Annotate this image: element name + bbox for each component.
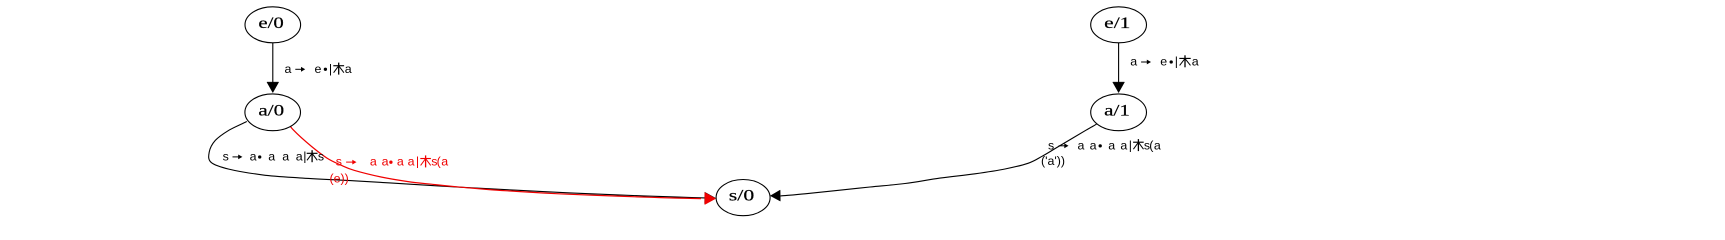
- svg-text:s/0: s/0: [729, 187, 755, 204]
- svg-text:a: a: [408, 155, 415, 169]
- svg-text:('a')): ('a')): [1041, 154, 1065, 168]
- edge e/1 to a/1: [1113, 43, 1125, 93]
- svg-text:a: a: [1090, 138, 1097, 152]
- edge a/0 to s/0 red: [287, 121, 716, 205]
- edge a/0 to s/0 black loop: [209, 122, 716, 204]
- node a/0: [245, 94, 301, 131]
- svg-text:a: a: [268, 150, 275, 164]
- svg-text:a/1: a/1: [1104, 102, 1130, 119]
- svg-text:a: a: [1154, 138, 1161, 152]
- svg-text:e: e: [1160, 55, 1167, 69]
- svg-text:a: a: [441, 155, 448, 169]
- node a/1: [1091, 94, 1147, 131]
- svg-text:a: a: [296, 150, 303, 164]
- svg-text:e/1: e/1: [1104, 15, 1130, 32]
- edge e/0 to a/0: [267, 43, 279, 93]
- svg-text:a: a: [345, 62, 352, 76]
- svg-text:s: s: [318, 150, 324, 164]
- label edge e/1-a/1 : a -> e.|mu-a: [1130, 55, 1199, 69]
- svg-text:a: a: [1078, 138, 1085, 152]
- svg-text:s: s: [1048, 138, 1054, 152]
- svg-text:e: e: [315, 62, 322, 76]
- svg-text:a: a: [382, 155, 389, 169]
- label edge e/0-a/0 : a -> e.|mu-a: [285, 62, 352, 76]
- svg-text:a: a: [1108, 138, 1115, 152]
- svg-text:e/0: e/0: [258, 15, 283, 32]
- svg-text:a: a: [397, 155, 404, 169]
- svg-text:a: a: [1130, 55, 1137, 69]
- svg-text:a: a: [1192, 55, 1199, 69]
- svg-text:|: |: [416, 155, 419, 169]
- node s/0: [716, 180, 770, 216]
- node e/1: [1091, 7, 1147, 43]
- svg-text:|: |: [303, 150, 306, 164]
- svg-text:|: |: [1175, 55, 1178, 69]
- svg-text:a: a: [1120, 138, 1127, 152]
- label edge a/0-s/0 black : s -> a. a a a|mu-s: [223, 150, 325, 164]
- svg-text:a: a: [370, 155, 377, 169]
- svg-text:s: s: [336, 155, 342, 169]
- svg-text:s: s: [223, 150, 229, 164]
- svg-text:|: |: [1129, 138, 1132, 152]
- svg-text:a/0: a/0: [258, 102, 284, 119]
- svg-text:a: a: [285, 62, 292, 76]
- node e/0: [245, 7, 301, 43]
- svg-text:a: a: [282, 150, 289, 164]
- svg-text:|: |: [329, 62, 332, 76]
- label edge a/0-s/0 red : s -> a a. a a|mu-s(a / (e)): [330, 155, 449, 186]
- svg-text:(e)): (e)): [330, 171, 349, 185]
- edge a/1 to s/0: [770, 124, 1096, 201]
- svg-text:a: a: [250, 150, 257, 164]
- label edge a/1-s/0 : s -> a a. a a|mu-s(a / ('a')): [1041, 138, 1161, 168]
